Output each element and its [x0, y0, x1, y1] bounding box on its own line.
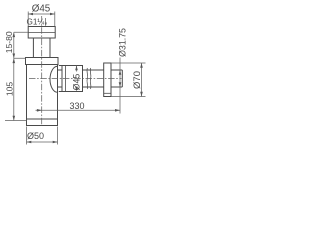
svg-text:G1¼: G1¼ — [27, 17, 45, 26]
dimension Ø50: arrows — [27, 141, 32, 144]
svg-text:Ø31.75: Ø31.75 — [118, 28, 128, 57]
dimension Ø45 top: dimension line — [28, 13, 55, 15]
trap body cylinder — [27, 65, 58, 126]
flange chamfer line — [104, 92, 111, 94]
top slip nut — [28, 27, 55, 39]
outlet pipe — [83, 70, 104, 87]
dimension 330: dimension line — [36, 109, 121, 111]
pipe break mark 2 — [89, 68, 92, 89]
dimension Ø31.75: arrows — [119, 70, 122, 75]
pipe break mark 1 — [86, 68, 89, 89]
G1 1/4 leader arrow — [45, 18, 47, 26]
outlet compression nut — [62, 66, 83, 92]
svg-text:105: 105 — [5, 82, 15, 97]
dimension 105: extension line — [5, 120, 27, 122]
vertical centerline of trap body — [41, 16, 43, 126]
dimension 15-80: extension lines — [14, 32, 28, 58]
nut chamfer line — [28, 32, 55, 34]
wall flange — [104, 63, 111, 97]
body top flange — [26, 58, 59, 65]
body cup joint line — [27, 118, 58, 120]
svg-text:Ø45: Ø45 — [32, 3, 51, 14]
dimension Ø45 nut: arrows — [76, 66, 78, 72]
dimension 15-80: arrows — [13, 32, 16, 37]
dimension Ø45 top: extension lines — [28, 12, 55, 27]
dimension Ø31.75: vertical line through pipe down to 330 — [119, 58, 121, 114]
horizontal centerline of outlet pipe — [29, 78, 122, 80]
svg-text:Ø50: Ø50 — [27, 131, 44, 141]
dimension Ø50: extension lines — [27, 127, 58, 145]
dimension Ø70: extension lines — [111, 63, 146, 97]
dimension Ø70: arrows — [140, 63, 143, 68]
nut inner line — [65, 66, 67, 92]
dimension Ø50: dimension line — [27, 141, 58, 143]
dimension 105: arrows — [13, 58, 16, 63]
dimension Ø45 top: left arrow — [28, 13, 33, 16]
wall pipe stub — [111, 70, 122, 87]
svg-text:15-80: 15-80 — [4, 31, 14, 53]
tailpiece tube — [33, 38, 50, 58]
outlet stub from body — [58, 66, 63, 92]
dimension 105: dimension line — [13, 58, 15, 120]
svg-text:330: 330 — [69, 101, 84, 111]
dimension 330: arrows — [37, 109, 42, 112]
svg-text:Ø70: Ø70 — [132, 71, 143, 89]
outlet ball joint bulb on body — [50, 66, 57, 92]
dimension Ø45 top: right arrow — [50, 13, 55, 16]
dimension 15-80: dimension line — [13, 32, 15, 58]
svg-text:Ø45: Ø45 — [71, 74, 81, 91]
dimension Ø70: dimension line — [141, 63, 143, 97]
